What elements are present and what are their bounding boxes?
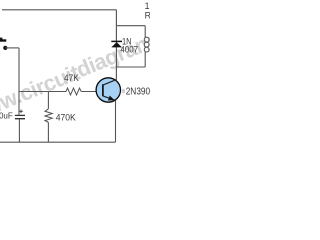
relay coil RY1 loops <box>144 37 149 42</box>
wire 470K bottom lead <box>47 122 49 142</box>
svg-text:47K: 47K <box>64 73 80 83</box>
watermark remnant blob <box>122 89 125 93</box>
resistor R2 470K zigzag <box>45 109 52 123</box>
watermark www.circuitdiagram <box>0 29 158 128</box>
capacitor C1 bottom plate <box>15 118 25 120</box>
transistor base bar <box>102 84 104 96</box>
wire base rail right <box>81 91 103 93</box>
svg-text:1: 1 <box>145 1 150 11</box>
wire bottom rail <box>0 141 116 143</box>
diode D1 1N4007 bar <box>111 40 122 42</box>
transistor emitter arrow <box>108 96 115 101</box>
transistor collector stroke <box>103 80 117 86</box>
wire right vertical (collector to top rail) <box>115 10 117 80</box>
resistor R1 47K zigzag <box>66 88 81 95</box>
wire relay bottom <box>116 66 145 68</box>
wire left vertical <box>18 48 20 115</box>
capacitor plus sign <box>19 110 23 114</box>
svg-text:R: R <box>145 10 150 20</box>
svg-text:10uF: 10uF <box>0 111 13 120</box>
svg-text:2N390: 2N390 <box>126 86 150 97</box>
wire emitter vertical <box>115 100 117 142</box>
wire relay right vertical <box>144 26 146 67</box>
wire top rail V+ <box>2 9 116 11</box>
wire cap bottom lead <box>18 119 20 142</box>
node A junction dot <box>3 46 7 50</box>
wire relay top <box>116 25 145 27</box>
svg-text:4007: 4007 <box>120 44 138 54</box>
transistor emitter stroke <box>103 96 116 101</box>
transistor Q1 body <box>96 78 120 102</box>
wire 470K top lead <box>47 92 49 109</box>
node top-left stub <box>0 39 6 41</box>
capacitor C1 top plate <box>15 114 25 116</box>
svg-text:470K: 470K <box>56 112 77 122</box>
wire base rail left <box>19 91 66 93</box>
diode D1 triangle <box>111 42 122 47</box>
wire from node A to left vertical <box>5 47 19 49</box>
